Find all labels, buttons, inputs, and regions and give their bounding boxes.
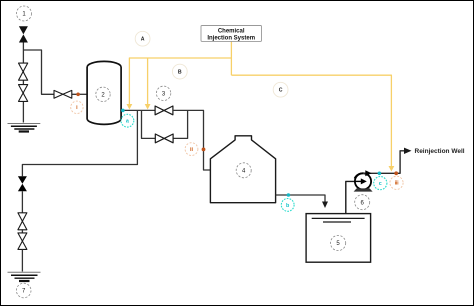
svg-text:A: A: [141, 37, 145, 43]
open gate valve lower on left string: [19, 85, 28, 102]
injection point i dot: [76, 93, 80, 97]
tank 4: [210, 136, 275, 203]
label circle i: [71, 101, 83, 113]
pump base: [354, 188, 373, 191]
label circle 5: [331, 235, 346, 250]
wire between closed valve and first open valve: [21, 191, 23, 212]
label circle ii: [185, 143, 198, 156]
chemical line arrow into vessel outlet line: [127, 104, 133, 110]
ground symbol bottom-left: [8, 272, 41, 281]
svg-text:ii: ii: [190, 147, 193, 153]
wire: pump suction from tank 5 top: [346, 181, 355, 213]
vessel 2: [87, 61, 121, 124]
label circle b: [281, 199, 294, 212]
valve 3 (main, open): [155, 106, 173, 115]
closed valve (filled) on bottom-left string: [18, 176, 27, 191]
wire to bottom ground: [21, 249, 23, 271]
open valve upper bottom-left: [18, 213, 27, 230]
wire: drain from main line to bottom-left valve string: [22, 110, 137, 176]
label circle a: [121, 114, 134, 127]
arrowhead on discharge at pump top: [365, 170, 371, 176]
arrowhead at reinjection well: [404, 148, 412, 154]
sample point c dot: [378, 172, 382, 176]
pump rotation arc: [355, 173, 364, 178]
tank 5: [306, 214, 371, 263]
chemical line C run to pump discharge: [231, 75, 391, 166]
arrowhead into tank 5: [322, 202, 328, 209]
label circle 7: [16, 283, 31, 298]
pump 6 circle: [355, 173, 371, 189]
chemical line: box bottom down: [230, 41, 232, 75]
label circle C: [273, 82, 288, 97]
wire: horizontal valve to vessel 2 inlet: [72, 93, 87, 95]
label circle 2: [96, 87, 110, 101]
open valve lower bottom-left: [18, 233, 27, 250]
label circle 6: [355, 195, 370, 210]
label circle iii: [390, 176, 403, 189]
wire: branch from vertical to horizontal valve: [23, 50, 54, 94]
wire: main flow line vessel 2 to valve 3: [121, 109, 155, 111]
chemical line arrow second: [145, 104, 151, 110]
bypass valve (open): [155, 134, 173, 143]
wire: valve 3 to drop into tank 4: [173, 110, 211, 170]
svg-text:Chemical: Chemical: [218, 28, 245, 34]
open gate valve upper on left string: [19, 63, 28, 80]
label circle 3: [156, 86, 170, 100]
label circle c: [374, 177, 387, 190]
closed valve (filled) below circle 1: [19, 26, 28, 42]
wire between the two open valves: [21, 229, 23, 233]
chemical injection system box: [201, 26, 262, 42]
liquid level line long: [312, 217, 365, 219]
label circle 1: [17, 6, 32, 21]
svg-text:C: C: [279, 88, 283, 94]
label circle 4: [236, 163, 251, 178]
injection point ii dot: [202, 148, 206, 152]
open valve horizontal at vessel 2 inlet: [54, 90, 72, 98]
liquid level line short: [323, 221, 351, 223]
wire: tank 4 outlet to tank 5 with arrow: [276, 195, 325, 203]
svg-text:c: c: [379, 181, 382, 187]
svg-text:Reinjection Well: Reinjection Well: [415, 148, 465, 155]
wire: top-left vertical from closed valve to ground: [22, 43, 24, 123]
chemical line A branch to vessel outlet: [129, 58, 231, 104]
chemical line arrow at pump discharge: [389, 166, 395, 172]
pump internal arrow: [354, 178, 367, 184]
bypass wire around valve 3: [142, 110, 188, 138]
label circle B: [172, 64, 187, 79]
sample point a dot: [121, 109, 125, 113]
label circle A: [135, 31, 150, 46]
ground symbol top-left: [8, 124, 41, 132]
sample point b dot: [287, 193, 291, 197]
wire: pump discharge to reinjection well: [363, 151, 404, 174]
injection point iii dot: [394, 171, 398, 175]
svg-text:Injection System: Injection System: [207, 36, 255, 42]
svg-text:B: B: [178, 70, 182, 76]
